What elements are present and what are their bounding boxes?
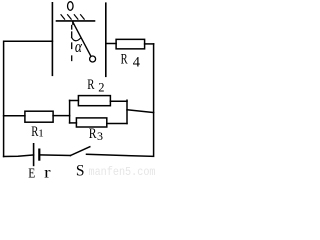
svg-text:2: 2 [98,80,104,94]
svg-text:S: S [76,163,85,178]
svg-text:3: 3 [97,129,103,143]
svg-text:1: 1 [38,127,44,139]
svg-text:E: E [28,166,35,178]
svg-text:r: r [44,165,51,178]
svg-text:R: R [121,51,128,67]
svg-text:4: 4 [133,54,141,70]
svg-text:α: α [75,37,83,56]
svg-text:manfen5.com: manfen5.com [89,165,156,178]
svg-text:R: R [89,126,97,142]
svg-text:R: R [87,77,94,93]
